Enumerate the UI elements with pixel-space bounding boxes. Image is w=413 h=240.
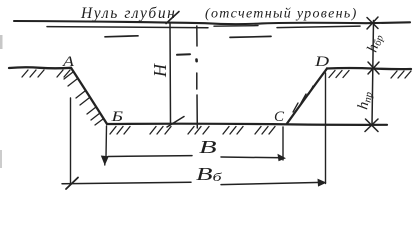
water ripple dash 2 [230, 36, 271, 37]
bottom hatch group 5 [255, 127, 275, 135]
scan smudge left edge upper [0, 35, 3, 49]
underline under уровень [277, 26, 360, 28]
svg-text:D: D [314, 53, 330, 69]
bottom hatch group 1 [110, 127, 130, 135]
slope A-B hatch ticks [64, 72, 103, 125]
centerline dash-dot axis [196, 26, 199, 128]
scan smudge left edge lower [0, 150, 2, 168]
bottom hatch group 4 [223, 127, 243, 135]
svg-text:hбр: hбр [365, 32, 387, 54]
extension line below A [70, 98, 72, 184]
svg-text:В: В [199, 138, 217, 157]
H top slash tick [166, 12, 179, 24]
water ripple dash 1 [105, 36, 138, 37]
extension line below D [325, 73, 327, 184]
svg-text:(отсчетный уровень): (отсчетный уровень) [205, 7, 358, 22]
svg-text:Вб: Вб [196, 164, 223, 184]
ground level cross tick [368, 62, 379, 74]
B dimension right arrowhead [278, 154, 287, 162]
top cross tick [367, 17, 378, 29]
left ground hatch group 2 [57, 70, 70, 77]
slope C-D [287, 69, 327, 124]
bottom level cross tick [365, 119, 378, 132]
small level dash near centerline [177, 53, 190, 56]
B width dimension line left part [108, 155, 192, 158]
svg-text:А: А [62, 52, 75, 69]
right levels dimension line [372, 21, 374, 126]
left ground line [9, 67, 71, 68]
Bb width dimension line right part [221, 182, 322, 184]
extension line below B(Б) [105, 126, 107, 165]
B width dimension line right part [221, 156, 283, 159]
right ground line [327, 68, 411, 69]
H bottom slash tick [167, 117, 184, 128]
Bb dimension right arrowhead [318, 179, 327, 187]
Bb left slash tick [66, 178, 78, 190]
slope A-B [71, 68, 107, 124]
zero depth line (нуль глубин) [14, 21, 410, 24]
second stroke under left title [47, 27, 208, 28]
centerline dot [195, 60, 198, 62]
svg-text:Нуль глубин: Нуль глубин [80, 5, 176, 22]
right ground hatch group 2 [391, 71, 411, 78]
right ground hatch group 1 [329, 71, 349, 78]
svg-text:Б: Б [110, 108, 123, 124]
left ground hatch group 1 [22, 70, 44, 77]
bottom hatch group 3 [188, 127, 209, 135]
slope C-D hatch ticks [293, 86, 313, 112]
extra stroke under отсчетный [214, 25, 258, 28]
svg-text:Н: Н [150, 63, 170, 78]
Bb width dimension line left part [62, 182, 191, 184]
trench bottom line [107, 124, 387, 125]
bottom hatch group 2 [150, 127, 171, 135]
svg-text:С: С [274, 109, 285, 125]
B dimension left arrowhead [101, 156, 109, 166]
H dimension line [169, 23, 172, 124]
extension line below C [282, 127, 284, 160]
